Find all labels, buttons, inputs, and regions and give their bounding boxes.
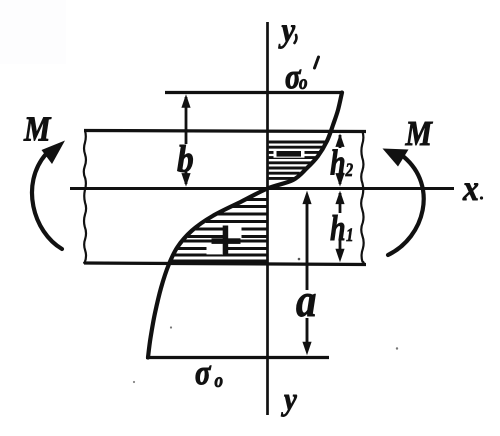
hatching: compression area above x-axis (right of y-axis) (269, 142, 326, 178)
beam top edge (84, 131, 366, 132)
gaps around plus sign (228, 226, 242, 238)
beam bottom edge (84, 263, 366, 265)
y axis (266, 22, 269, 415)
dimension h2 line (339, 135, 342, 148)
gap around minus sign (274, 149, 305, 157)
subscript tick of y1 (295, 35, 297, 43)
minus sign (compression) (277, 151, 302, 157)
svg-text:b: b (177, 138, 194, 180)
svg-text:M: M (23, 110, 51, 149)
beam right broken (wavy) edge (361, 132, 364, 265)
bottom reference line at sigma0 level (146, 356, 329, 359)
right moment arc M (388, 157, 424, 255)
svg-text:x: x (462, 169, 479, 208)
hatching: tension area below x-axis (left of y-axis) (172, 200, 267, 262)
svg-text:a: a (296, 274, 316, 326)
left moment arc M (32, 154, 62, 249)
svg-text:1: 1 (346, 224, 354, 245)
dimension b line (185, 97, 188, 144)
scan specks (396, 347, 398, 349)
svg-text:h: h (330, 208, 346, 248)
svg-text:o: o (215, 370, 224, 393)
dimension h1 line (339, 193, 342, 213)
svg-text:o: o (299, 72, 308, 95)
x axis (70, 187, 454, 190)
beam left broken (wavy) edge (84, 131, 86, 264)
dimension a line (306, 200, 309, 290)
prime mark (315, 57, 319, 68)
top reference line at sigma0' level (165, 91, 342, 94)
svg-text:h: h (330, 142, 346, 182)
svg-text:σ: σ (195, 352, 211, 391)
stress distribution S-curve (148, 93, 342, 358)
svg-text:2: 2 (345, 159, 354, 180)
plus sign (tension) (223, 226, 229, 255)
svg-text:M: M (405, 115, 433, 154)
